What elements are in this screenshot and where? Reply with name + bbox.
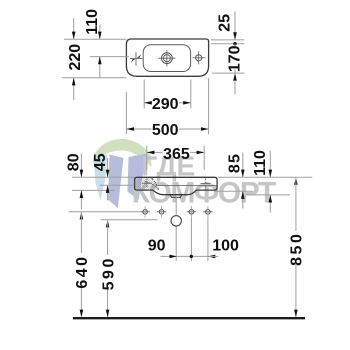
mounting hole cross 1 [143,210,148,215]
tap hole crosshair plan [193,57,206,59]
dim 25 dot [233,42,236,45]
floor line [73,317,305,319]
ext line 365 left [146,146,148,171]
svg-text:500: 500 [152,122,179,139]
svg-text:290: 290 [152,96,179,113]
drain inner circle plan [163,55,170,62]
ext line plan right 25 bottom [211,43,245,45]
dim 500 line [126,128,151,130]
ext line front top edge right [218,176,312,178]
watermark logo light blue triangle [94,155,108,201]
dim 110 front upper arrow [269,151,271,177]
dim 110 plan lower line [99,57,101,78]
ext line plan right 170 bottom [212,72,245,74]
mounting hole cross 2 [159,210,164,215]
svg-text:85: 85 [226,153,243,173]
ext line front 85 level right [214,190,253,192]
svg-text:110: 110 [252,150,269,176]
ext line below cross 3 [190,218,192,261]
svg-text:590: 590 [100,256,117,290]
tap hole circle plan [196,55,202,61]
dim 90-100 line [161,255,177,257]
front tap fixing cross left [142,182,152,184]
ext line plan top edge left [64,38,126,40]
dim 110 front lower arrow [269,195,271,212]
ext line 290 left [143,80,145,109]
ext line front 110 level right [246,194,290,196]
mounting hole cross 3 [189,210,194,215]
washbasin plan outline [126,39,208,76]
svg-text:170: 170 [227,45,244,72]
ext line plan right 25 top [211,39,245,41]
ext line front 45 level [100,184,134,186]
svg-text:90: 90 [148,238,166,255]
dim 90-100 dot [190,255,193,258]
front rim edge line [158,185,217,187]
svg-text:100: 100 [212,238,239,255]
dim 850 line [294,177,298,185]
front drain circle [171,216,181,226]
watermark logo lavender stripe 1 [108,155,124,209]
dim 80 lower arrow [80,191,82,210]
dim 80 upper arrow [80,154,82,177]
dim 220 upper arrow [73,18,75,39]
dim 640 line [80,212,84,220]
svg-text:25: 25 [216,14,233,32]
dim 25 arrow [234,11,236,39]
drain centreline below [175,227,177,261]
svg-text:110: 110 [84,9,101,35]
ext line drain centreline left [101,219,158,221]
svg-text:850: 850 [289,232,306,266]
svg-text:220: 220 [67,44,84,71]
mounting hole cross 4 [206,210,211,215]
dim 170 line upper [234,44,236,47]
basin inner rim plan [143,45,190,72]
front drain boss [170,195,182,198]
left tap position cross plan [130,57,142,59]
ext line 365 right [203,146,205,171]
dim 220 lower arrow [73,78,75,100]
ext line below cross 4 [207,218,209,261]
washbasin front outline [135,177,218,194]
front basin hidden profile dashed [145,181,159,190]
svg-text:45: 45 [92,153,109,171]
ext line 500 right [208,78,210,135]
ext line plan bottom left [62,77,126,79]
dim 170 line lower [234,70,236,74]
watermark logo green leaf swoosh [93,139,152,168]
svg-text:КОМФОРТ: КОМФОРТ [132,177,276,210]
drain outer circle plan [162,53,173,64]
ext line 500 left [125,92,127,135]
drain crosshair plan [158,57,175,59]
dim 85 lower arrow [242,192,244,209]
dim 170 outside arrow [233,73,237,81]
watermark logo lavender stripe 2 [128,154,147,201]
front tap fixing cross right [201,182,211,184]
dim 85 upper arrow [242,153,244,177]
ext line front top edge left [72,176,135,178]
ext line 290 right [190,80,192,109]
svg-text:640: 640 [74,254,91,288]
dim 45 upper arrow [107,158,109,177]
svg-text:80: 80 [66,153,83,171]
dim 365 line [147,151,163,153]
svg-text:365: 365 [163,146,190,163]
dim 110 plan upper arrow [99,25,101,39]
ext line front 80 level [72,189,115,191]
drain centreline above [175,196,177,215]
ext line plan holes centreline left [90,56,129,58]
front hatch boundary dashed [152,178,159,189]
ext line mounting holes left [69,211,140,213]
dim 290 line [144,102,151,104]
dim 45 lower arrow [107,186,109,201]
dim 590 line [106,220,110,228]
